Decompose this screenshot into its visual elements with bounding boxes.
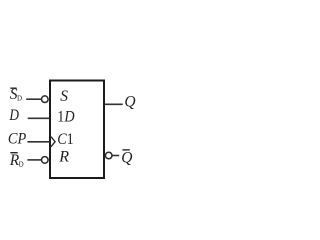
wire R_D <box>27 159 41 161</box>
svg-text:D: D <box>17 95 22 103</box>
wire D <box>28 117 50 119</box>
inversion bubble at R input <box>42 157 49 164</box>
flip-flop body box <box>50 81 104 179</box>
overbar of S_D <box>10 87 16 89</box>
svg-text:S: S <box>60 88 68 105</box>
svg-text:1D: 1D <box>57 109 74 126</box>
overbar of R_D <box>10 152 17 154</box>
svg-text:CP: CP <box>8 131 27 148</box>
clock edge chevron <box>51 137 55 147</box>
wire CP <box>27 141 49 143</box>
svg-text:R: R <box>58 149 69 166</box>
svg-text:D: D <box>19 160 24 168</box>
svg-text:Q: Q <box>124 94 135 111</box>
svg-text:C1: C1 <box>57 131 74 148</box>
svg-text:Q: Q <box>121 149 132 166</box>
svg-text:D: D <box>9 107 19 124</box>
inversion bubble at Q-bar output <box>105 152 112 159</box>
wire Q output <box>105 103 123 105</box>
wire S_D <box>26 98 41 100</box>
wire Q-bar output <box>112 155 119 157</box>
overbar of Q-bar <box>122 149 129 151</box>
inversion bubble at S input <box>42 96 49 103</box>
